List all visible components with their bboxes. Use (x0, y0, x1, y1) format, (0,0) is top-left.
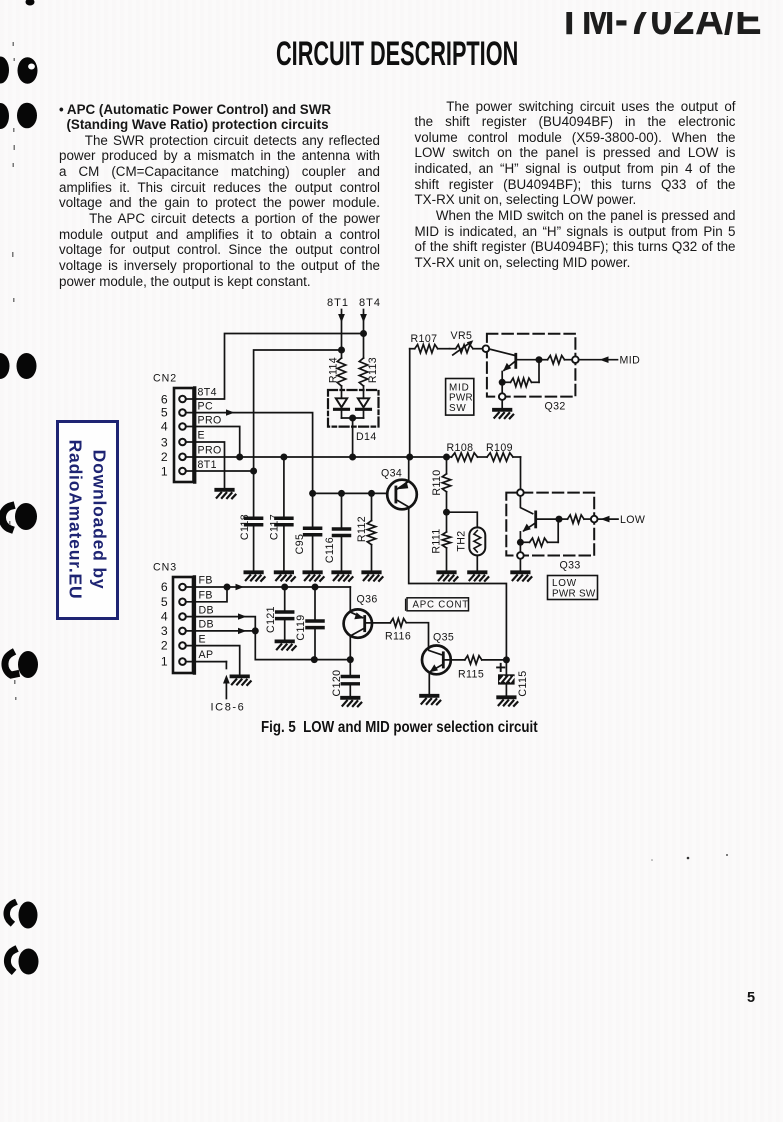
svg-text:FB: FB (199, 590, 213, 602)
svg-text:CN3: CN3 (153, 562, 177, 574)
wire IC8-6 arrow (225, 662, 227, 669)
svg-text:8T4: 8T4 (198, 387, 217, 399)
resistor R116 (390, 619, 406, 627)
wire E pin3 to ground (187, 442, 225, 489)
node junction C95 (309, 490, 316, 497)
resistor Q33 lower (520, 541, 529, 543)
wire 8T1 feed (341, 310, 343, 359)
svg-text:CN2: CN2 (153, 373, 177, 385)
diode D14b (358, 398, 369, 407)
svg-text:4: 4 (161, 420, 168, 434)
scan blob pair 2 (0, 103, 9, 129)
node junction rail/pin4 (236, 454, 243, 461)
svg-text:PRO: PRO (198, 414, 222, 426)
resistor R113 (359, 358, 367, 386)
wire DB pin3 (187, 630, 256, 632)
resistor R115 (465, 656, 482, 664)
wire PC pin5 (187, 413, 313, 494)
figure caption (261, 719, 538, 737)
capacitor C117 (276, 518, 292, 525)
scan dotted trail left edge (9, 42, 17, 700)
svg-text:PWR: PWR (449, 393, 473, 404)
node junction 8T4 (360, 330, 367, 337)
svg-text:R107: R107 (411, 333, 438, 345)
svg-text:VR5: VR5 (451, 330, 473, 342)
capacitor C118 (246, 518, 262, 525)
wire AP pin1 (187, 661, 227, 663)
wire R109 to Q33 (520, 457, 522, 489)
svg-text:C118: C118 (239, 514, 251, 540)
pin Q32 base input (483, 345, 490, 352)
wire Q32 emitter to ground (501, 382, 503, 393)
resistor R110 (446, 457, 448, 474)
transistor Q32 (514, 354, 517, 367)
node junction C115 (503, 656, 510, 663)
wire Q36 base to R116 (366, 622, 390, 624)
svg-text:Q36: Q36 (357, 594, 378, 606)
scan blob pair 3 (0, 353, 10, 379)
wire Q34 collector to rail (408, 457, 410, 482)
svg-text:SW: SW (449, 403, 467, 414)
wire R107 to rail (409, 349, 411, 457)
wire Q32 collector (517, 359, 539, 361)
svg-text:C120: C120 (331, 670, 343, 697)
svg-text:R111: R111 (431, 528, 443, 553)
wire D14 to rail (352, 418, 354, 457)
scan blob pair 5 (5, 653, 16, 675)
svg-text:R112: R112 (356, 516, 368, 542)
node junction rail/R108 R110 (443, 454, 450, 461)
svg-text:PRO: PRO (198, 445, 222, 457)
svg-text:FB: FB (199, 575, 213, 587)
pin Q33 emitter (517, 552, 524, 559)
svg-text:LOW: LOW (552, 578, 577, 589)
APC CONT label box (407, 598, 469, 611)
wire Q32 base (489, 349, 514, 355)
svg-text:MID: MID (449, 382, 470, 393)
capacitor C119 (312, 584, 319, 591)
svg-text:C117: C117 (269, 514, 281, 540)
wire 8T1 to C118 column (254, 350, 342, 518)
svg-text:6: 6 (161, 393, 168, 407)
svg-text:AP: AP (199, 649, 214, 661)
svg-text:IC8-6: IC8-6 (211, 702, 246, 714)
svg-text:R116: R116 (385, 630, 411, 642)
node junction 8T1 (338, 347, 345, 354)
node junction rail/D14 (349, 454, 356, 461)
svg-text:LOW: LOW (620, 514, 645, 526)
svg-text:R113: R113 (367, 357, 379, 383)
svg-text:8T4: 8T4 (359, 297, 381, 309)
wire 8T4 to CN2 pin6 (187, 334, 364, 400)
pin Q32 MID input (572, 356, 579, 363)
resistor Q33 upper (559, 518, 568, 520)
thermistor TH2 (447, 512, 478, 527)
svg-text:1: 1 (161, 465, 168, 479)
svg-text:D14: D14 (356, 431, 377, 443)
node diode common junction (349, 415, 356, 422)
svg-text:3: 3 (161, 624, 168, 638)
svg-text:2: 2 (161, 639, 168, 653)
wire Q34 base line (313, 492, 388, 494)
wire PRO rail pin2 (187, 456, 447, 458)
wire DB node to C119/C120 row (255, 631, 350, 660)
wire Q35 emitter to ground (428, 673, 430, 695)
pin Q33 collector top (517, 489, 524, 496)
pin Q32 emitter (499, 393, 506, 400)
page title (276, 37, 518, 71)
capacitor C115 (electrolytic) (505, 660, 507, 674)
svg-text:PC: PC (198, 401, 214, 413)
watermark box "Downloaded by RadioAmateur.EU" (56, 420, 119, 620)
svg-text:8T1: 8T1 (198, 459, 217, 471)
node junction rail/Q34 collector (406, 454, 413, 461)
pin Q33 LOW input (591, 516, 598, 523)
node junction R110/R111/TH2 (443, 509, 450, 516)
D14 dash-dot box (328, 390, 379, 427)
left text column (59, 102, 380, 290)
svg-text:2: 2 (161, 450, 168, 464)
svg-text:Q35: Q35 (433, 632, 454, 644)
svg-text:5: 5 (161, 406, 168, 420)
wire DB pin4 (187, 617, 256, 631)
svg-text:R110: R110 (431, 469, 443, 495)
node junction C116 (338, 490, 345, 497)
wire 8T4 feed (363, 310, 365, 359)
svg-text:C121: C121 (265, 606, 277, 633)
ground Q32 (494, 410, 513, 419)
svg-text:8T1: 8T1 (327, 297, 349, 309)
svg-text:E: E (199, 633, 206, 645)
svg-text:E: E (198, 430, 205, 442)
resistor R111 (446, 512, 448, 532)
capacitor C95 (312, 493, 314, 528)
resistor Q32 upper (539, 359, 548, 361)
wire E pin2 to ground (187, 646, 240, 676)
node junction rail/C117 (280, 454, 287, 461)
wire 8T1 pin1 (187, 470, 254, 472)
wire Q35 base to R115 (444, 659, 464, 661)
wire Q33 emitter to ground (519, 542, 521, 552)
MID PWR SW label box (446, 379, 474, 416)
header model number TM-702A/E (top cropped) (556, 12, 771, 36)
svg-text:R108: R108 (447, 442, 474, 454)
svg-text:C95: C95 (294, 534, 306, 555)
ground Q33 (512, 572, 531, 581)
resistor Q32 lower (502, 381, 510, 383)
transistor Q33 block (506, 493, 594, 556)
svg-text:R114: R114 (328, 357, 340, 383)
scan speck top (26, 0, 35, 6)
transistor Q32 block (487, 334, 576, 397)
wire LOW input (598, 518, 619, 520)
svg-text:MID: MID (620, 355, 641, 367)
wire FB pin5 join (187, 587, 227, 602)
svg-text:Q34: Q34 (381, 468, 402, 480)
wire FB pin6 to Q36 (187, 586, 351, 588)
svg-text:C115: C115 (517, 670, 529, 696)
resistor R112 (371, 493, 373, 520)
svg-text:PWR SW: PWR SW (552, 588, 596, 599)
diode D14a (336, 398, 347, 407)
svg-text:3: 3 (161, 436, 168, 450)
svg-text:5: 5 (161, 595, 168, 609)
wire Q33 collector side (537, 518, 559, 520)
svg-text:1: 1 (161, 655, 168, 669)
wire MID input (579, 359, 618, 361)
node Q33 emitter junction (517, 539, 524, 546)
right text column (415, 99, 736, 271)
svg-text:APC CONT: APC CONT (413, 600, 469, 611)
transistor Q33 (520, 496, 532, 514)
wire diode common (342, 417, 364, 419)
scan blob pair 6 (7, 903, 14, 922)
svg-text:4: 4 (161, 610, 168, 624)
node junction R112 (368, 490, 375, 497)
scan blob pair 7 (7, 950, 14, 970)
page number (747, 990, 755, 1006)
node junction pin1/8T1 (250, 468, 257, 475)
LOW PWR SW label box (548, 576, 598, 600)
svg-text:DB: DB (199, 619, 215, 631)
capacitor C120 (349, 660, 351, 677)
wire PRO pin4 (187, 427, 240, 458)
svg-text:Q32: Q32 (545, 401, 566, 413)
node Q32 emitter junction (499, 379, 506, 386)
svg-text:TH2: TH2 (456, 530, 468, 551)
wire Q36 emitter bottom (349, 636, 351, 659)
svg-text:R115: R115 (458, 669, 484, 681)
scan blob pair 1 (0, 57, 9, 84)
svg-text:DB: DB (199, 604, 215, 616)
resistor R114 (337, 358, 345, 386)
capacitor C116 (341, 493, 343, 529)
svg-text:C119: C119 (295, 614, 307, 640)
svg-text:Q33: Q33 (560, 560, 581, 572)
capacitor C121 (281, 584, 288, 591)
svg-text:6: 6 (161, 580, 168, 594)
svg-text:C116: C116 (324, 537, 336, 563)
scan specks right (687, 857, 690, 860)
wire Q34 emitter to C115 node (409, 508, 507, 660)
scan blob pair 4 (2, 506, 11, 529)
ground CN2 E (216, 490, 235, 499)
